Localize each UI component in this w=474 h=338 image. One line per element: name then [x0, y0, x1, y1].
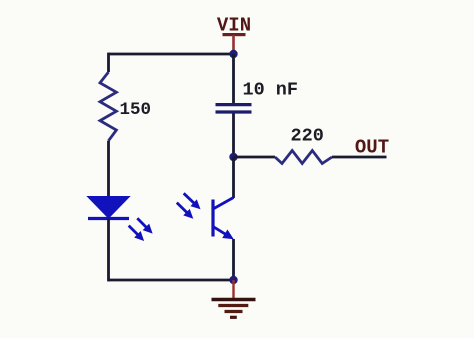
ground bar 4 [230, 316, 237, 319]
photo arrow 1 into Q1 [181, 190, 204, 213]
wire: middle vertical node B to transistor Q1 collector [232, 157, 235, 198]
ground stem [232, 280, 234, 300]
LED D1 emission arrow 1 [134, 215, 156, 237]
wire: middle vertical capacitor to node B [232, 114, 235, 158]
transistor Q1 emitter diagonal with arrowhead [210, 222, 236, 244]
svg-text:150: 150 [120, 100, 152, 120]
wire: left vertical down to resistor R1 [107, 53, 110, 72]
resistor R2 zigzag (220) [275, 151, 332, 164]
wire: horizontal R2 to OUT [332, 156, 387, 159]
node B (output junction) [229, 153, 237, 161]
wire: left vertical from LED to bottom corner [107, 219, 110, 282]
wire: emitter down to node C [232, 239, 235, 280]
capacitor C1 top plate [216, 103, 252, 106]
svg-text:220: 220 [291, 126, 324, 147]
svg-text:10 nF: 10 nF [243, 80, 299, 101]
wire: middle vertical node A to capacitor C1 [232, 54, 235, 103]
VIN supply bar [223, 33, 246, 36]
ground bar 1 [212, 298, 256, 301]
LED D1 cathode bar [88, 217, 129, 220]
wire: top horizontal from left branch to node A [109, 53, 234, 56]
photo arrow 2 into Q1 [174, 199, 197, 222]
node C (ground junction) [229, 276, 237, 284]
wire: left vertical from R1 to LED [107, 141, 110, 197]
wire: horizontal node B to resistor R2 [234, 156, 276, 159]
svg-text:OUT: OUT [355, 137, 389, 159]
capacitor C1 bottom plate [216, 110, 252, 113]
transistor Q1 collector diagonal [213, 198, 234, 210]
transistor Q1 base bar [211, 200, 214, 237]
LED D1 triangle [88, 197, 130, 219]
resistor R1 zigzag (150) [100, 72, 116, 141]
LED D1 emission arrow 2 [125, 222, 147, 244]
ground bar 3 [225, 310, 243, 313]
ground bar 2 [218, 304, 248, 307]
wire: bottom horizontal to node C [109, 279, 234, 282]
node A (VIN junction) [229, 50, 237, 58]
VIN stem wire [232, 35, 235, 54]
